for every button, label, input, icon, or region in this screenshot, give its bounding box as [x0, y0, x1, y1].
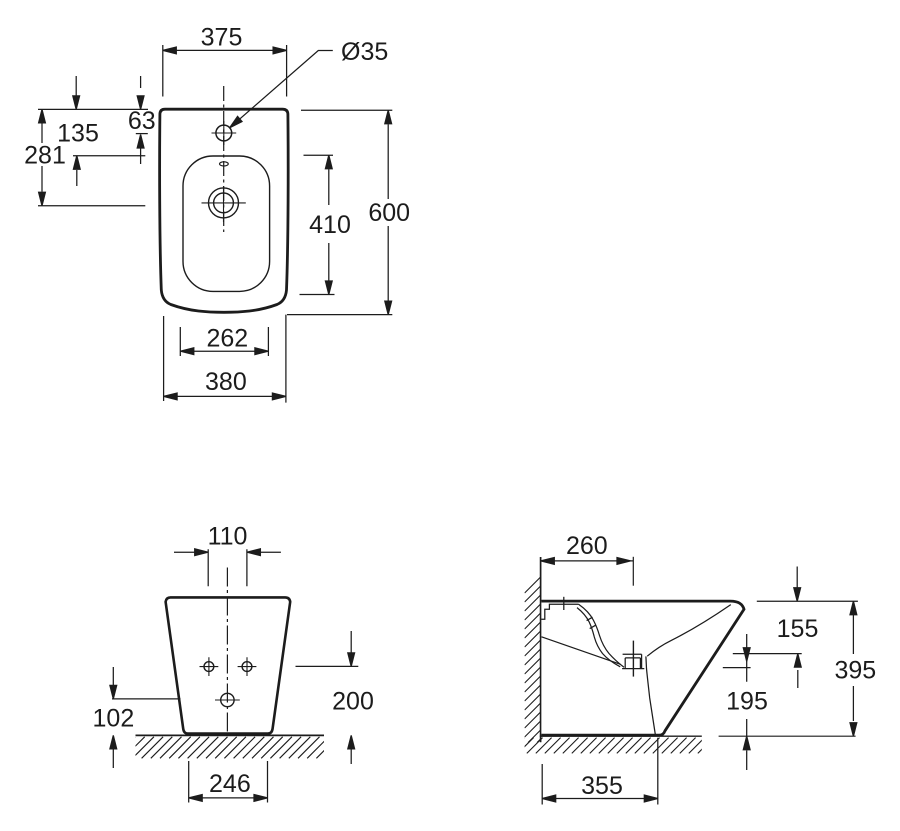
svg-text:63: 63	[128, 107, 156, 135]
svg-text:380: 380	[205, 368, 247, 396]
dim 600 extension lines	[286, 110, 392, 402]
dim 380 extension line	[163, 316, 165, 401]
faucet hole circle O35	[216, 125, 232, 141]
left fixing hole	[200, 657, 219, 676]
side rim deck profile	[541, 604, 578, 619]
dim 281 up arrow	[41, 123, 43, 143]
drain outer circle	[209, 188, 239, 218]
front floor line	[136, 734, 325, 736]
side floor line	[540, 735, 702, 737]
drain center line upper / dim 260 extension	[632, 557, 634, 586]
fixing point cross mark	[723, 634, 751, 682]
side faucet tick	[563, 597, 565, 610]
drain inner circle	[214, 193, 234, 213]
dim 410 line segments	[328, 169, 330, 280]
dim 135 extension line	[73, 155, 145, 157]
drain center line lower	[632, 641, 634, 677]
plan view bidet outline	[160, 109, 289, 312]
svg-text:375: 375	[201, 24, 243, 52]
dim 262 ticks	[180, 327, 268, 356]
dim 355 extension lines	[542, 738, 658, 805]
basin wall outer curve	[579, 604, 624, 667]
svg-text:Ø35: Ø35	[341, 38, 388, 66]
dim 281 extension line	[38, 205, 145, 207]
dim 195 lower shaft	[746, 719, 748, 770]
front drain hole	[215, 699, 240, 701]
dim 410 extension lines	[300, 155, 335, 294]
top extension line side	[757, 600, 858, 602]
faucet hole crosshair	[212, 121, 237, 145]
front view outline	[166, 597, 291, 733]
drain cup	[622, 654, 644, 668]
dim 600 line segments	[387, 124, 389, 300]
svg-text:110: 110	[208, 522, 248, 550]
dim 135 up arrow	[76, 170, 78, 186]
dim 155 up arrow	[797, 670, 799, 688]
dim 110 extension lines	[208, 549, 247, 586]
dim 260 line	[541, 560, 634, 562]
svg-text:262: 262	[206, 324, 248, 352]
front floor hatching	[114, 737, 338, 759]
side view bidet outline	[541, 601, 744, 735]
side floor extension line	[719, 735, 856, 737]
drain crosshair	[202, 186, 246, 222]
dim 63 down arrow	[140, 76, 142, 88]
svg-text:410: 410	[309, 211, 351, 239]
svg-text:246: 246	[209, 770, 251, 798]
dim 135 down arrow	[75, 76, 77, 96]
svg-text:155: 155	[777, 615, 819, 643]
leader O35 line	[230, 51, 333, 128]
wall line	[540, 557, 542, 742]
basin underside line	[542, 637, 621, 665]
dim 200 extension line	[296, 665, 359, 667]
dim 102 extension line	[112, 698, 181, 700]
svg-text:281: 281	[24, 142, 66, 170]
svg-text:102: 102	[93, 704, 135, 732]
right fixing hole	[238, 657, 257, 676]
dim 281 down arrow	[41, 166, 43, 192]
dim 380 line	[164, 395, 286, 397]
basin wall inner curve	[577, 608, 620, 667]
left extension line top edge	[38, 108, 148, 110]
wall hatching	[525, 577, 541, 773]
dim 110 arrows	[174, 551, 281, 553]
dim 355 line	[542, 798, 658, 800]
dim 63 up arrow	[140, 147, 142, 164]
svg-text:260: 260	[566, 532, 608, 560]
svg-text:395: 395	[834, 657, 876, 685]
svg-text:195: 195	[726, 687, 768, 715]
svg-text:200: 200	[332, 688, 374, 716]
dimension 375 extension lines	[163, 45, 287, 97]
side floor hatching	[509, 738, 714, 754]
svg-text:355: 355	[581, 772, 623, 800]
joint tick marks	[587, 617, 596, 628]
dim 155 down arrow	[796, 567, 798, 588]
overflow slot	[220, 162, 229, 166]
plan center line	[223, 86, 225, 232]
dim 63 tick	[136, 133, 148, 135]
svg-text:600: 600	[368, 199, 410, 227]
dim 262 line	[180, 350, 268, 352]
pedestal interior line	[646, 656, 656, 735]
dim 102 arrows	[112, 667, 114, 768]
dimension 375 line	[163, 49, 287, 51]
dim 155 extension line	[733, 653, 802, 655]
dim 200 arrows	[350, 631, 352, 764]
dim 395 line	[852, 615, 854, 721]
bowl far side curve	[647, 605, 731, 657]
dim 246 extension lines	[189, 761, 268, 803]
plan inner basin	[183, 156, 270, 291]
front center line	[226, 568, 228, 734]
dim 246 line	[189, 797, 268, 799]
